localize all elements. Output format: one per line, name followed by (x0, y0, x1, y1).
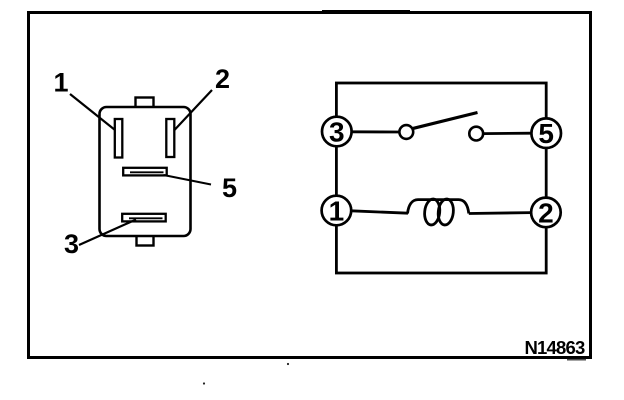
terminal node 1 (322, 196, 352, 227)
relay connector bottom mounting tab (137, 231, 154, 246)
pin 5 terminal slot (123, 168, 167, 176)
pin 2 terminal slot (166, 119, 174, 157)
schematic loop wiring box (336, 83, 546, 273)
leader line pin 3 (79, 220, 136, 246)
leader line pin 2 (174, 90, 212, 131)
svg-text:5: 5 (222, 173, 237, 203)
leader line pin 1 (70, 94, 115, 130)
pin 3 terminal slot (122, 214, 166, 222)
terminal node 2 (531, 197, 561, 228)
relay connector top mounting tab (136, 98, 154, 112)
terminal node 5 (531, 118, 561, 149)
wire coil to terminal 2 (469, 211, 531, 215)
svg-text:1: 1 (53, 68, 68, 98)
switch fixed contact right (469, 127, 483, 141)
wire terminal 3 to switch contact (351, 130, 400, 133)
pin 1 terminal slot (115, 119, 123, 158)
relay connector body (100, 107, 191, 236)
svg-text:3: 3 (329, 117, 345, 148)
wire switch contact to terminal 5 (483, 132, 532, 135)
svg-text:3: 3 (64, 229, 79, 259)
switch blade (open) (412, 113, 478, 129)
switch fixed contact left (399, 125, 413, 139)
leader line pin 5 (164, 175, 212, 185)
wire terminal 1 to coil (351, 211, 408, 213)
relay coil L1 (408, 198, 469, 225)
svg-text:1: 1 (329, 196, 345, 227)
svg-text:2: 2 (215, 64, 230, 94)
terminal node 3 (322, 117, 352, 148)
svg-text:N14863: N14863 (524, 337, 585, 358)
svg-text:2: 2 (538, 197, 554, 228)
svg-text:5: 5 (538, 118, 554, 149)
